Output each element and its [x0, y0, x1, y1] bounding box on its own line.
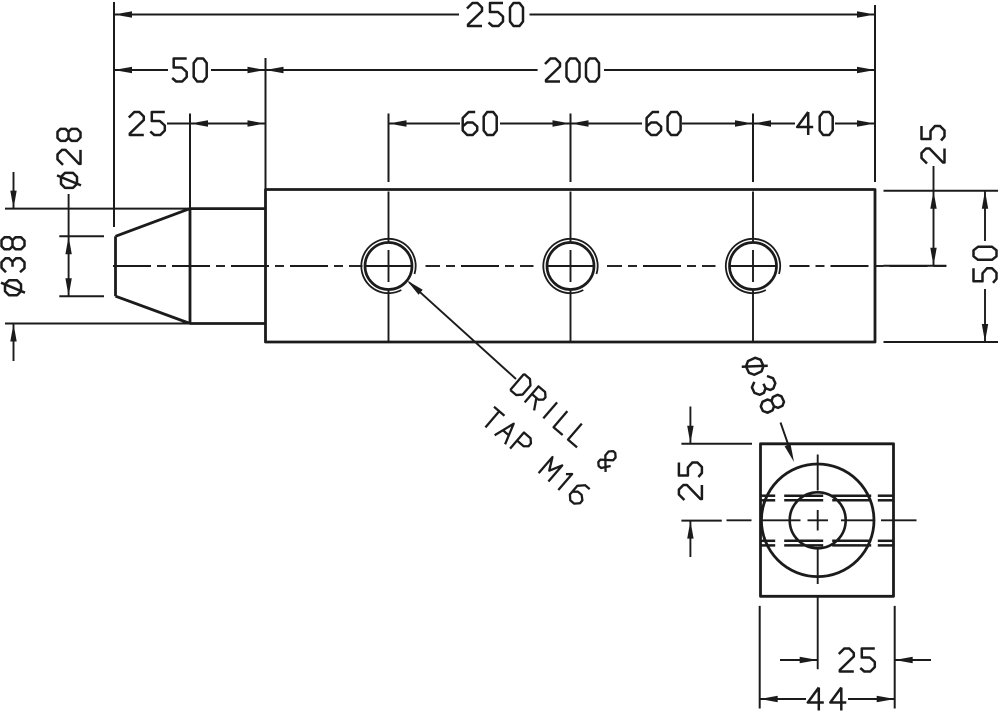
ext line right top [884, 190, 999, 192]
dim 25 top-left [167, 123, 266, 125]
hole 3 centreline vertical [752, 192, 754, 242]
dim 50 line [114, 69, 168, 71]
leader line phi38 [781, 423, 792, 455]
note text line 2 [480, 407, 591, 507]
dim 44 [760, 698, 806, 700]
ext line end view bottom-left [759, 606, 761, 709]
dim text 250 [467, 3, 523, 26]
ext line right axis [884, 265, 947, 267]
part body outline [266, 190, 876, 343]
dim phi38 arrows [13, 172, 15, 209]
phi28 ext tick bottom [59, 295, 104, 297]
ext line end view bottom-right [894, 606, 896, 709]
dim 25 end view left [689, 407, 691, 444]
extension line left end (x=114) [113, 2, 115, 227]
extension line hole 1 [388, 114, 390, 183]
dim text phi28 [57, 129, 81, 188]
dim 200 line [266, 69, 538, 71]
dim 60 second [571, 123, 643, 125]
taper bottom slant [116, 296, 191, 323]
dim text 40 [797, 112, 833, 135]
end view vertical centreline [817, 455, 819, 491]
hole 2 tap drill circle [547, 243, 594, 290]
extension line right end (x=875) [874, 5, 876, 182]
hole 3 thread arc [726, 239, 780, 293]
dim 250 line [114, 14, 459, 16]
dim 50 right [984, 191, 986, 241]
hole 1 centreline vertical [388, 192, 390, 242]
label phi38 end view [741, 354, 786, 414]
dim 25 right [933, 166, 935, 266]
tip face [114, 236, 117, 296]
dim text 25 end view [679, 463, 702, 501]
hole 2 thread arc [543, 239, 597, 293]
ext line bottom of neck, to left edge [5, 323, 190, 325]
neck bottom edge [190, 322, 266, 325]
end view horizontal centreline [727, 519, 752, 521]
hidden lines cross hole upper [761, 494, 775, 497]
dim text 50 [172, 59, 207, 82]
hole 1 tap drill circle [365, 243, 412, 290]
taper top slant [116, 209, 191, 237]
hole 2 centreline vertical [570, 192, 572, 242]
extension line hole 3 [752, 114, 754, 183]
dim phi28 line [68, 194, 70, 296]
dim text 200 [545, 59, 599, 82]
leader line drill/tap [409, 282, 516, 379]
ext line right bottom [884, 341, 999, 343]
dim 40 [753, 123, 795, 125]
dim text 25 bottom [839, 649, 875, 672]
main centreline [113, 265, 151, 267]
end view tap hole circle [790, 492, 846, 548]
dim text 25 [129, 112, 165, 135]
note text line 1 [510, 374, 619, 472]
ext line end view axis-left [681, 520, 721, 522]
end view square [761, 444, 894, 597]
dim text 25 right [922, 126, 945, 164]
dim text 60 [463, 112, 497, 135]
extension line hole 2 [570, 114, 572, 183]
end view phi38 circle [761, 464, 874, 577]
ext line end view top-left [681, 443, 752, 445]
taper/neck junction edge [189, 209, 192, 324]
hole 3 tap drill circle [730, 243, 777, 290]
phi28 ext tick top [59, 235, 104, 237]
end view centre cross [808, 519, 829, 521]
dim 25 end view bottom [780, 659, 818, 661]
hole 1 thread arc [361, 239, 415, 293]
ext line top of neck, to left edge [5, 208, 190, 210]
dim text 60 second [647, 112, 681, 135]
dim text 50 right [974, 247, 997, 283]
dim text phi38 [1, 237, 25, 295]
neck top edge [190, 207, 266, 210]
dim text 44 [808, 688, 847, 711]
extension line x=190 (25 dim) [189, 114, 191, 209]
dim 60 first [389, 123, 461, 125]
extension line x=265.5 (50/200 boundary) [265, 58, 267, 190]
